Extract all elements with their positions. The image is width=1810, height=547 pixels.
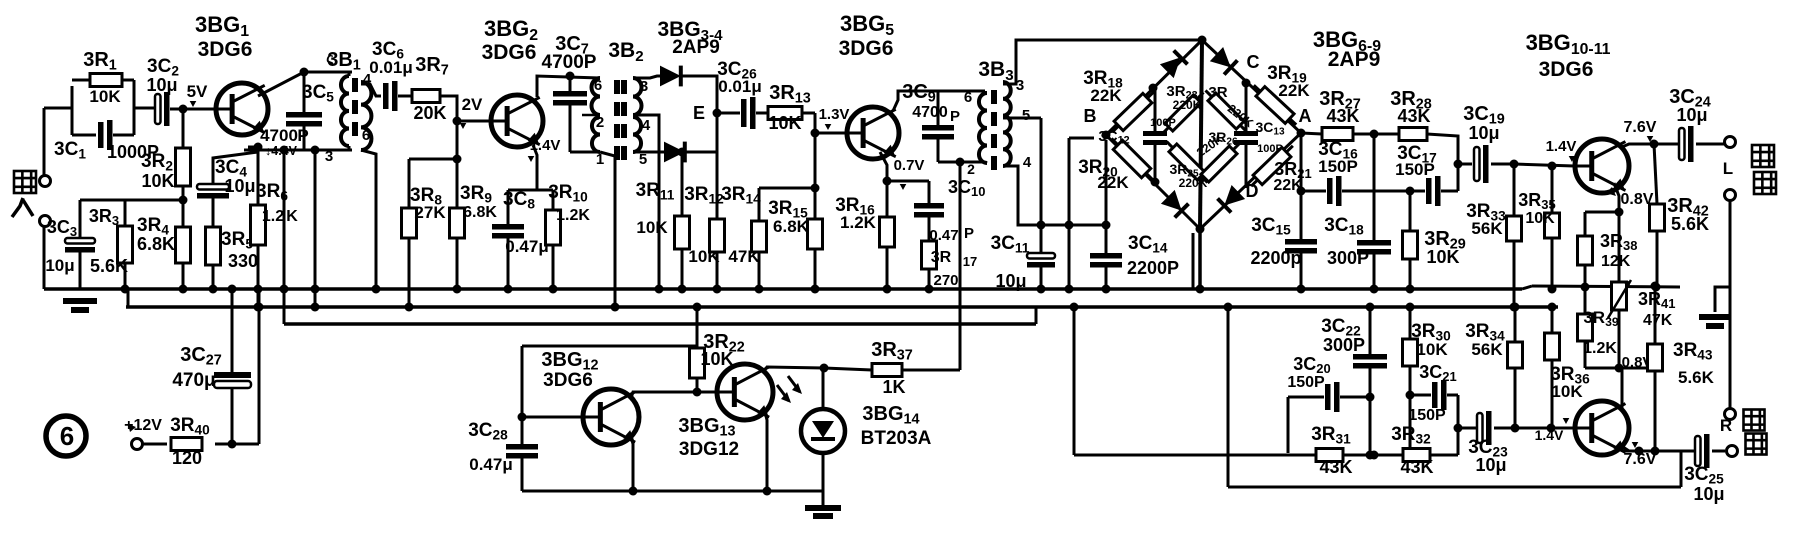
- svg-text:10K: 10K: [636, 218, 668, 237]
- svg-text:10μ: 10μ: [45, 256, 74, 275]
- svg-text:22K: 22K: [1097, 173, 1129, 192]
- svg-text:43K: 43K: [1319, 457, 1352, 477]
- svg-text:1.3V: 1.3V: [819, 106, 850, 123]
- svg-text:10K: 10K: [1416, 340, 1448, 359]
- svg-text:5.6K: 5.6K: [1678, 368, 1715, 387]
- svg-text:R: R: [1720, 416, 1732, 435]
- svg-text:1.2K: 1.2K: [840, 213, 877, 232]
- svg-text:10μ: 10μ: [995, 271, 1026, 291]
- svg-text:2200P: 2200P: [1127, 258, 1179, 278]
- svg-text:150P: 150P: [1287, 374, 1325, 391]
- svg-text:3R: 3R: [1208, 84, 1227, 101]
- svg-text:5: 5: [639, 151, 647, 168]
- svg-text:6.8K: 6.8K: [773, 217, 810, 236]
- svg-text:10μ: 10μ: [1676, 105, 1707, 125]
- svg-text:0.7V: 0.7V: [894, 157, 925, 174]
- svg-text:3DG6: 3DG6: [1539, 58, 1594, 81]
- svg-text:1.4V: 1.4V: [530, 137, 561, 154]
- svg-text:10K: 10K: [1525, 210, 1555, 227]
- svg-text:6: 6: [594, 77, 602, 94]
- svg-text:2: 2: [596, 114, 604, 131]
- svg-text:10K: 10K: [141, 171, 174, 191]
- svg-text:5V: 5V: [187, 82, 208, 101]
- svg-text:7.6V: 7.6V: [1624, 451, 1657, 468]
- svg-text:2AP9: 2AP9: [1328, 48, 1381, 71]
- svg-text:120: 120: [172, 448, 202, 468]
- svg-text:6.8K: 6.8K: [137, 234, 175, 254]
- svg-text:A: A: [1299, 106, 1312, 126]
- svg-text:330: 330: [228, 251, 258, 271]
- svg-text:0.01μ: 0.01μ: [718, 77, 762, 96]
- svg-text:10μ: 10μ: [1693, 484, 1724, 504]
- svg-text:470μ: 470μ: [172, 370, 215, 391]
- svg-text:150P: 150P: [1395, 160, 1435, 179]
- svg-text:43K: 43K: [1400, 457, 1433, 477]
- svg-text:1.4V: 1.4V: [1535, 427, 1564, 443]
- svg-text:220K: 220K: [1173, 98, 1202, 112]
- svg-text:P: P: [964, 225, 974, 242]
- svg-text:10μ: 10μ: [1475, 455, 1506, 475]
- svg-text:12K: 12K: [1601, 253, 1631, 270]
- svg-text:150P: 150P: [1408, 407, 1446, 424]
- svg-text:56K: 56K: [1471, 340, 1503, 359]
- svg-text:L: L: [1723, 159, 1733, 178]
- svg-text:100P: 100P: [1257, 143, 1283, 155]
- svg-text:P: P: [297, 126, 308, 145]
- svg-text:4700P: 4700P: [542, 52, 597, 73]
- svg-text:2AP9: 2AP9: [672, 37, 720, 58]
- svg-text:7.6V: 7.6V: [1624, 119, 1657, 136]
- svg-text:3DG6: 3DG6: [543, 370, 593, 391]
- svg-text:4: 4: [642, 117, 651, 134]
- svg-text:220K: 220K: [1179, 176, 1208, 190]
- svg-text:27K: 27K: [414, 203, 446, 222]
- svg-text:5: 5: [1022, 107, 1030, 124]
- svg-text:20K: 20K: [413, 103, 446, 123]
- svg-text:4700: 4700: [260, 126, 298, 145]
- svg-text:1.2K: 1.2K: [1583, 340, 1617, 357]
- svg-text:1K: 1K: [882, 377, 905, 397]
- svg-text:BT203A: BT203A: [861, 428, 932, 449]
- svg-text:0.47: 0.47: [929, 227, 958, 244]
- svg-text:0.8V: 0.8V: [1621, 191, 1654, 208]
- svg-text:43K: 43K: [1397, 106, 1430, 126]
- svg-text:0.47μ: 0.47μ: [505, 237, 549, 256]
- svg-text:270: 270: [933, 272, 958, 289]
- svg-text:3R: 3R: [931, 249, 952, 266]
- svg-text:10K: 10K: [1551, 382, 1583, 401]
- svg-text:P: P: [950, 108, 960, 125]
- svg-text:4700: 4700: [912, 104, 948, 121]
- svg-text:5.6K: 5.6K: [1671, 214, 1709, 234]
- svg-text:1.4V: 1.4V: [1546, 138, 1577, 155]
- svg-text:6.8K: 6.8K: [463, 204, 497, 221]
- svg-text:150P: 150P: [1318, 157, 1358, 176]
- svg-text:300P: 300P: [1323, 335, 1365, 355]
- svg-text:100P: 100P: [1150, 117, 1176, 129]
- svg-text:K: K: [286, 208, 298, 225]
- svg-text:4: 4: [1023, 154, 1032, 171]
- svg-text:6: 6: [362, 127, 370, 144]
- svg-text:0.01μ: 0.01μ: [369, 58, 413, 77]
- svg-text:17: 17: [963, 254, 977, 269]
- svg-text:2: 2: [967, 161, 975, 177]
- svg-text:47K: 47K: [1643, 312, 1673, 329]
- svg-text:ς: ς: [326, 50, 334, 67]
- svg-text:3: 3: [325, 148, 333, 165]
- svg-text:22K: 22K: [1278, 81, 1310, 100]
- svg-text:22K: 22K: [1090, 86, 1122, 105]
- svg-text:10K: 10K: [768, 113, 801, 133]
- svg-text:3: 3: [640, 78, 648, 95]
- svg-text:10K: 10K: [688, 247, 720, 266]
- svg-text:3DG6: 3DG6: [198, 38, 253, 61]
- svg-text:56K: 56K: [1471, 219, 1503, 238]
- svg-text:43K: 43K: [1326, 106, 1359, 126]
- svg-text:10K: 10K: [700, 349, 733, 369]
- svg-text:1.2K: 1.2K: [556, 207, 590, 224]
- svg-text:C: C: [1247, 52, 1260, 72]
- svg-text:3DG12: 3DG12: [679, 439, 739, 460]
- svg-text:300P: 300P: [1327, 248, 1369, 268]
- svg-text:10μ: 10μ: [224, 176, 255, 196]
- svg-text:10μ: 10μ: [146, 75, 177, 95]
- svg-text:0.47μ: 0.47μ: [469, 455, 513, 474]
- svg-text:10K: 10K: [1426, 247, 1459, 267]
- svg-text:5.6K: 5.6K: [90, 256, 128, 276]
- svg-text:1.2: 1.2: [262, 208, 284, 225]
- svg-text:10K: 10K: [89, 87, 121, 106]
- svg-text:6: 6: [964, 89, 972, 106]
- svg-text:1: 1: [596, 151, 604, 168]
- svg-text:B: B: [1084, 106, 1097, 126]
- svg-text:D: D: [1246, 181, 1259, 201]
- svg-text:10μ: 10μ: [1468, 123, 1499, 143]
- svg-text:2200p: 2200p: [1250, 248, 1301, 268]
- svg-text:2V: 2V: [462, 95, 483, 114]
- svg-text:3DG6: 3DG6: [482, 41, 537, 64]
- svg-text:E: E: [693, 103, 705, 123]
- svg-text:6: 6: [60, 421, 74, 451]
- svg-text:3DG6: 3DG6: [839, 37, 894, 60]
